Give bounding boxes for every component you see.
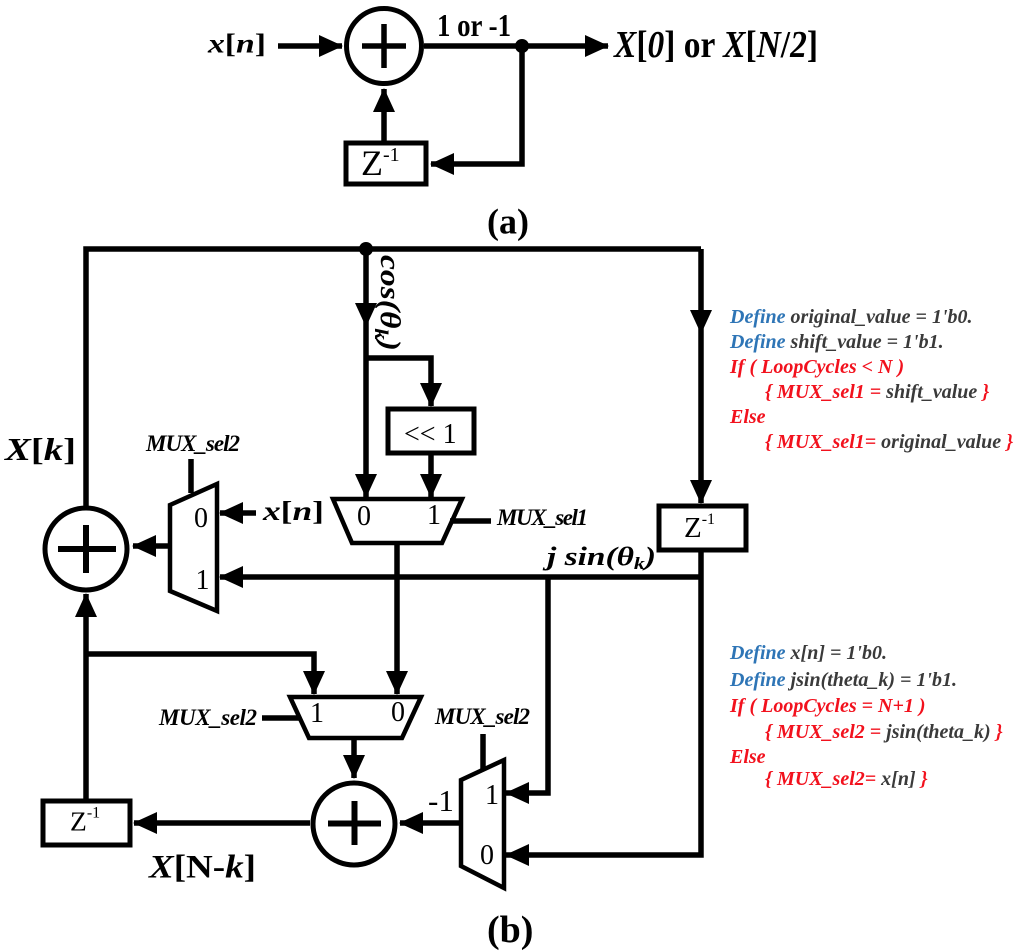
top bus wire <box>86 249 701 508</box>
svg-text:(a): (a) <box>487 202 529 242</box>
select stub of middle mux <box>262 715 300 721</box>
svg-text:Define original_value = 1'b0.: Define original_value = 1'b0. <box>729 306 973 328</box>
wire x[n] to adder A1 <box>278 43 342 49</box>
svg-text:Define x[n] = 1'b0.: Define x[n] = 1'b0. <box>729 642 887 664</box>
svg-text:{ MUX_sel1 = shift_value }: { MUX_sel1 = shift_value } <box>765 381 989 403</box>
svg-text:0: 0 <box>357 501 371 532</box>
wire MUX_sel1 output down to middle mux input 0 <box>394 543 400 694</box>
wire right column down to Z2 <box>698 249 704 503</box>
adder A3 <box>313 783 395 865</box>
wire x[n] to left mux input 0 <box>220 510 256 516</box>
svg-text:(b): (b) <box>487 909 533 951</box>
svg-text:X[N-k]: X[N-k] <box>148 850 256 886</box>
svg-text:Else: Else <box>729 746 766 768</box>
svg-text:1: 1 <box>485 780 499 811</box>
svg-text:X[0] or X[N/2]: X[0] or X[N/2] <box>613 24 818 66</box>
wire Z1 to adder A1 <box>381 89 387 143</box>
pseudocode block 2 <box>729 642 1003 790</box>
select stub of right mux <box>480 734 486 769</box>
svg-text:Define jsin(theta_k) = 1'b1.: Define jsin(theta_k) = 1'b1. <box>729 669 957 691</box>
svg-text:Define shift_value = 1'b1.: Define shift_value = 1'b1. <box>729 331 944 353</box>
wire shifter to MUX_sel1 input 1 <box>428 453 434 497</box>
svg-text:1 or -1: 1 or -1 <box>437 7 511 43</box>
svg-text:x[n]: x[n] <box>207 29 266 59</box>
plus sign of adder A1 <box>362 24 406 68</box>
svg-text:cos(θk): cos(θk) <box>370 255 405 351</box>
svg-text:x[n]: x[n] <box>262 496 324 526</box>
svg-text:Z-1: Z-1 <box>70 805 100 837</box>
wire from Z3 up to adder A2 <box>83 594 89 801</box>
wire junction down to MUX_sel1 input 0 <box>363 249 369 497</box>
adder A2 <box>45 508 127 590</box>
left mux MUX_sel2 <box>170 484 217 611</box>
svg-text:Z-1: Z-1 <box>361 143 400 183</box>
wire left mux output to adder A2 <box>133 543 170 549</box>
svg-text:1: 1 <box>196 565 210 596</box>
delay box Z3 <box>43 801 130 845</box>
jsin bus wire from Z2 column to left mux input 1 <box>220 574 701 580</box>
svg-text:If ( LoopCycles < N ): If ( LoopCycles < N ) <box>729 356 904 378</box>
mid arrowhead on cos wire <box>355 303 377 327</box>
svg-text:MUX_sel2: MUX_sel2 <box>158 705 257 730</box>
svg-text:-1: -1 <box>428 783 454 818</box>
mid arrowhead on right column <box>690 310 712 334</box>
wire adder A3 to Z3 <box>134 820 310 826</box>
svg-text:MUX_sel1: MUX_sel1 <box>496 505 588 530</box>
feedback wire from node down and left to Z1 <box>431 46 522 164</box>
delay box Z2 <box>659 506 746 550</box>
plus sign of adder A3 <box>328 801 381 845</box>
delay box Z1 <box>346 143 426 184</box>
svg-text:Else: Else <box>729 406 766 428</box>
output wire of A1 to X[0] <box>424 43 608 49</box>
plus sign of adder A2 <box>58 525 116 573</box>
svg-text:{ MUX_sel1= original_value }: { MUX_sel1= original_value } <box>765 431 1013 453</box>
shifter box <<1 <box>388 409 474 453</box>
svg-text:1: 1 <box>427 500 441 531</box>
adder A1 <box>347 9 422 84</box>
svg-text:MUX_sel2: MUX_sel2 <box>145 431 240 456</box>
svg-text:j sin(θk): j sin(θk) <box>542 542 656 573</box>
middle mux MUX_sel2 <box>290 697 421 738</box>
svg-text:1: 1 <box>310 698 324 729</box>
right mux MUX_sel2 <box>461 760 504 888</box>
svg-text:MUX_sel2: MUX_sel2 <box>434 704 530 729</box>
branch wire to middle mux input 1 <box>86 654 314 694</box>
svg-text:Z-1: Z-1 <box>684 511 715 544</box>
wire middle mux output to adder A3 <box>351 738 357 778</box>
select stub of MUX_sel1 <box>450 518 491 524</box>
junction dot on top bus <box>359 242 373 256</box>
wire Z2 down and left to right mux input 0 <box>506 550 701 855</box>
svg-text:<< 1: << 1 <box>404 419 457 450</box>
svg-text:{ MUX_sel2= x[n] }: { MUX_sel2= x[n] } <box>765 768 928 790</box>
wire jsin branch down to right mux input 1 <box>506 577 548 793</box>
svg-text:0: 0 <box>480 840 494 871</box>
select stub of left mux <box>188 459 194 493</box>
mux MUX_sel1 <box>333 499 462 543</box>
svg-text:0: 0 <box>194 503 208 534</box>
wire right mux output to adder A3 <box>400 820 461 826</box>
pseudocode block 1 <box>729 306 1013 453</box>
svg-text:0: 0 <box>391 697 405 728</box>
branch wire to shifter <box>366 358 431 406</box>
svg-text:X[k]: X[k] <box>4 431 76 467</box>
svg-text:If ( LoopCycles = N+1 ): If ( LoopCycles = N+1 ) <box>729 695 926 717</box>
svg-text:{ MUX_sel2 = jsin(theta_k) }: { MUX_sel2 = jsin(theta_k) } <box>765 721 1003 743</box>
node junction dot <box>515 39 529 53</box>
